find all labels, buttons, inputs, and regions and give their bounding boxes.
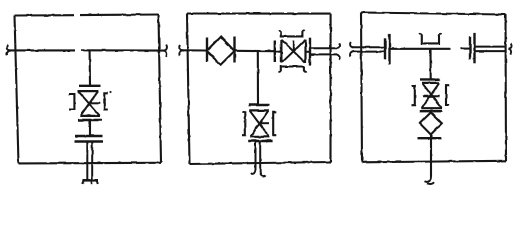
wire: line segment to capacitor C3 (461, 48, 470, 50)
capacitor C3 right plate (473, 33, 475, 63)
crystal Y2 diamond body (207, 37, 235, 65)
crystal Y3 plate-and-X body (horizontal) (281, 40, 305, 63)
crystal Y5 holder bracket left (412, 86, 415, 106)
wire: line capacitor C2 to center node (391, 48, 451, 50)
crystal Y4 plate-and-X body (249, 110, 269, 136)
crystal Y5 bottom electrode plate (420, 110, 442, 112)
wire: double output lead panel 2 (311, 48, 338, 54)
wire: top line panel 1 (right segment to output) (81, 49, 165, 51)
crystal Y3 left electrode plate (274, 41, 276, 63)
terminal hook: output lead panel 1 (164, 45, 167, 57)
crystal Y4 bottom electrode plate (248, 140, 272, 142)
shield enclosure box 2 (187, 14, 331, 165)
crystal Y5 holder bracket right (446, 85, 449, 105)
terminal hook: output lead panel 3 (509, 43, 512, 55)
wire: input line to crystal Y2 (182, 49, 207, 51)
crystal Y3 holder bracket bottom (278, 67, 306, 72)
crystal Y1 bottom electrode plate (78, 119, 102, 121)
wire: connector plate to body (275, 50, 282, 52)
crystal Y6 diamond body (420, 113, 442, 135)
crystal Y1 top electrode plate (79, 85, 101, 87)
crystal Y3 holder bracket top (278, 31, 304, 37)
wire: double lead crystal Y4 to bottom terminal (256, 142, 261, 172)
wire: bottom lead panel 3 (430, 135, 432, 177)
capacitor C3 left plate (469, 37, 471, 60)
terminal hook: input lead panel 2 (179, 45, 183, 55)
wire: double lead capacitor to ground (87, 142, 92, 179)
crystal Y3 right electrode plate (309, 38, 311, 66)
wire: double input lead to capacitor C2 (352, 47, 385, 51)
capacitor C1 bottom plate (75, 140, 104, 142)
ink speck (109, 91, 111, 93)
crystal Y5 top electrode plate (420, 78, 440, 80)
crystal Y1 plate-and-X body (78, 91, 100, 116)
crystal Y5 plate-and-X body (421, 83, 442, 108)
shield enclosure box 1 (15, 15, 162, 164)
crystal Y4 top electrode plate (248, 104, 269, 106)
wire: stem from line down to crystal Y4 (257, 51, 259, 104)
crystal Y2 right plate (233, 37, 235, 63)
wire: stem line to crystal Y5 (429, 49, 431, 79)
crystal Y2 left plate (206, 38, 208, 62)
terminal hook: output lead panel 2 (337, 43, 340, 60)
crystal Y1 holder bracket left (69, 94, 74, 110)
capacitor C2 left plate (384, 39, 386, 60)
wire: double output lead panel 3 (476, 47, 506, 52)
terminal hook: input lead panel 3 (350, 42, 354, 57)
crystal Y4 holder bracket left (242, 112, 245, 135)
crystal Y4 holder bracket right (273, 112, 276, 135)
crystal Y1 holder bracket right (104, 93, 108, 110)
wire: line crystal Y2 to crystal Y3 (235, 50, 275, 53)
wire: connector body to right plate (306, 51, 311, 53)
wire: input line panel 1 (left segment) (9, 49, 75, 51)
terminal hook: bottom lead panel 3 (425, 177, 435, 184)
crystal Y6 bottom plate (418, 137, 442, 139)
wire: stem crystal to capacitor C1 (89, 121, 91, 135)
capacitor C1 top plate (75, 135, 103, 137)
ground bar panel 1 (83, 180, 99, 184)
terminal hook: bottom lead panel 2 (251, 169, 266, 176)
capacitor C2 right plate (388, 34, 390, 64)
wire: stem to crystal Y6 (430, 112, 432, 114)
terminal hook: input lead panel 1 (7, 45, 11, 55)
wire: stem from line to crystal Y1 (89, 50, 92, 85)
shield enclosure box 3 (361, 13, 506, 163)
holder cup bracket above line (422, 35, 439, 44)
